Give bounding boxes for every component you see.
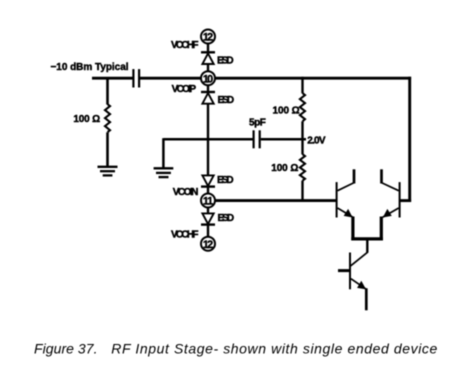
label VCOIN: [173, 187, 199, 198]
wire ESD ground branch (left): [163, 138, 208, 168]
wire capacitor to node 10: [140, 77, 201, 80]
wire D3 to pin 11: [207, 187, 209, 194]
svg-text:VCCHF: VCCHF: [171, 40, 199, 51]
resistor R1 100 ohm: [105, 104, 110, 132]
wire 5pF to 2.0V node: [261, 138, 306, 141]
label VCCHF (bottom): [171, 230, 199, 241]
ground (ESD center): [154, 168, 174, 177]
label 100 ohm (left): [73, 114, 100, 125]
wire Q1 emitter to common bar: [351, 217, 354, 241]
svg-text:12: 12: [203, 239, 213, 251]
diode D4 ESD (pad 11 to VCCHF): [201, 213, 215, 224]
svg-text:VCOIP: VCOIP: [172, 84, 197, 95]
pin 12 (bottom): [201, 237, 215, 251]
svg-text:Figure 37.: Figure 37.: [34, 340, 98, 356]
wire R1 to ground: [106, 132, 109, 167]
wire common bar to Q3 collector: [351, 239, 368, 266]
label ESD (D2): [218, 95, 235, 106]
svg-text:100 Ω: 100 Ω: [271, 163, 298, 174]
caption Figure 37: [34, 340, 438, 356]
wire junction drop to R1: [106, 78, 109, 104]
resistor R3 100 ohm (lower): [300, 154, 305, 180]
label VCOIP: [172, 84, 197, 95]
svg-text:RF Input Stage- shown with sin: RF Input Stage- shown with single ended …: [111, 340, 437, 356]
svg-text:ESD: ESD: [217, 55, 234, 66]
label ESD (D4): [218, 213, 235, 224]
wire node10 to diode D2: [207, 85, 209, 92]
label -10 dBm Typical: [51, 62, 129, 73]
wire pin12 to diode D1: [207, 43, 209, 52]
wire D4 to pin 12 (bottom): [207, 225, 209, 237]
label VCCHF (top): [171, 40, 199, 51]
svg-text:12: 12: [203, 32, 213, 44]
wire Q2 emitter to common bar: [380, 217, 383, 241]
label 100 ohm (lower right): [271, 163, 298, 174]
svg-text:ESD: ESD: [217, 175, 234, 186]
svg-text:100 Ω: 100 Ω: [73, 114, 100, 125]
wire node to 5pF cap: [208, 138, 253, 141]
svg-text:10: 10: [203, 73, 213, 85]
diode D3 ESD (ESD ground to pad 11): [201, 175, 215, 186]
wire R3 to bottom rail: [301, 181, 303, 202]
diode D1 ESD (to VCCHF): [201, 52, 215, 64]
capacitor C1 (input coupling): [133, 69, 139, 87]
svg-text:−10 dBm Typical: −10 dBm Typical: [51, 62, 129, 73]
resistor R2 100 ohm (upper): [300, 93, 305, 121]
wire pin11 to diode D4: [207, 207, 209, 213]
svg-text:VCCHF: VCCHF: [171, 230, 199, 241]
transistor Q1 (left of diff pair): [337, 169, 355, 217]
transistor Q3 (current source): [338, 253, 366, 290]
wire D1 to node 10: [207, 64, 209, 71]
svg-text:5pF: 5pF: [249, 117, 266, 128]
wire R2 to 2.0V node: [301, 121, 303, 154]
node 2.0V label: [307, 135, 326, 146]
svg-text:ESD: ESD: [218, 213, 235, 224]
wire D2 down through ESD-ground node to D3: [207, 104, 209, 176]
svg-text:ESD: ESD: [218, 95, 235, 106]
wire bottom rail (pin 11 to Q1 base): [215, 199, 337, 202]
wire resistor branch drop: [301, 77, 303, 94]
capacitor C2 5pF: [254, 130, 260, 148]
svg-text:VCOIN: VCOIN: [173, 187, 199, 198]
ground (left input): [98, 167, 118, 176]
pin 11 (VCOIN pad): [201, 194, 215, 208]
label 5pF: [249, 117, 266, 128]
label 100 ohm (upper right): [273, 106, 300, 117]
wire input horizontal: [92, 77, 133, 80]
diode D2 ESD (pad to ESD ground): [201, 92, 215, 104]
wire Q3 emitter down: [365, 288, 368, 310]
svg-text:2.0V: 2.0V: [307, 135, 326, 146]
svg-text:100 Ω: 100 Ω: [273, 106, 300, 117]
pin 10 (VCOIP pad): [201, 71, 215, 85]
label ESD (D3): [217, 175, 234, 186]
wire emitter common bar: [351, 237, 383, 240]
wire right vertical (rail to Q2 base): [400, 77, 412, 202]
label ESD (D1): [217, 55, 234, 66]
transistor Q2 (right of diff pair): [381, 169, 399, 217]
pin 12 (top): [201, 30, 215, 44]
wire top rail (node10 to right): [215, 77, 411, 80]
svg-text:11: 11: [203, 196, 213, 208]
